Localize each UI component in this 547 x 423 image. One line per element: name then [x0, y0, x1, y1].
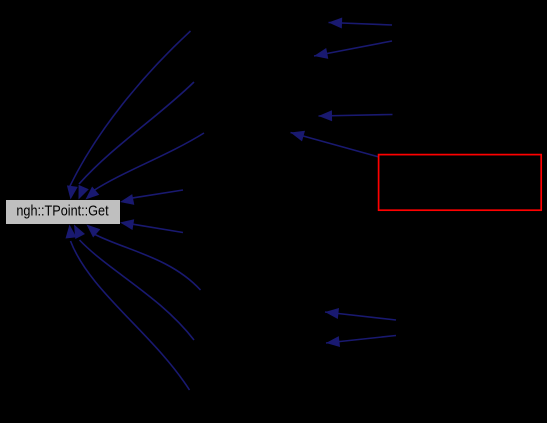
edge c1 -> Get (top outer): [70, 31, 191, 187]
edge r1 (top right, upper): [329, 23, 393, 26]
edge c2 -> Get (top middle): [79, 82, 194, 184]
node (red, truncated caller): [379, 155, 542, 211]
svg-text:ngh::TPoint::Get: ngh::TPoint::Get: [16, 203, 109, 220]
edge r3 (mid right): [319, 115, 393, 117]
node ngh::TPoint::Get (current function, grey): [6, 200, 120, 225]
edge c6 -> Get (bottom inner): [94, 234, 201, 290]
edge c5 -> Get (right lower): [132, 224, 183, 232]
edge r4 (from red node): [291, 133, 380, 158]
edge c7 -> Get (bottom middle): [80, 240, 195, 340]
edge r2 (top right, lower): [314, 41, 392, 56]
edge r6 (bottom right, lower): [326, 336, 396, 344]
edge c4 -> Get (right upper): [132, 190, 183, 198]
edge r5 (bottom right, upper): [325, 312, 396, 320]
edge c3 -> Get (top inner): [93, 133, 204, 191]
edge c8 -> Get (bottom outer): [71, 241, 190, 390]
